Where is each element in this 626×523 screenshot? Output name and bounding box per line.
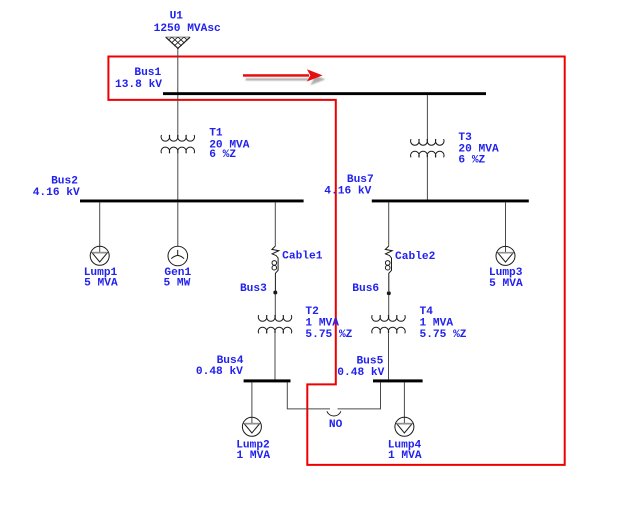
lump load Lump4 xyxy=(395,417,414,436)
node Bus3 junction dot xyxy=(273,291,277,295)
Bus1 bar xyxy=(163,92,486,95)
tie wire NO to Bus5 xyxy=(338,382,381,409)
red arrow xyxy=(243,69,323,81)
svg-text:Bus5: Bus5 xyxy=(356,355,383,367)
svg-text:U1: U1 xyxy=(170,11,184,23)
svg-text:Bus3: Bus3 xyxy=(240,283,267,295)
wire Bus5 to Lump4 xyxy=(403,382,405,423)
transformer T2 xyxy=(258,315,291,333)
lump load Lump1 xyxy=(90,246,109,265)
svg-text:Cable1: Cable1 xyxy=(282,251,323,263)
cable Cable2 xyxy=(385,246,392,291)
tie wire Bus4 to NO switch xyxy=(287,382,330,409)
svg-text:1 MVA: 1 MVA xyxy=(420,318,454,330)
svg-text:1 MVA: 1 MVA xyxy=(305,318,339,330)
svg-text:6 %Z: 6 %Z xyxy=(209,149,236,161)
svg-text:T3: T3 xyxy=(458,132,472,144)
lump load Lump3 xyxy=(496,246,515,265)
wire T1 to Bus2 xyxy=(177,152,179,200)
generator Gen1 xyxy=(168,246,188,266)
wire Bus7 to Cable2 xyxy=(388,202,390,246)
wire Bus2 to Gen1 xyxy=(177,202,179,246)
svg-text:T4: T4 xyxy=(420,306,434,318)
wire T4 to Bus5 xyxy=(388,334,390,380)
wire Bus1 to T3 xyxy=(426,95,428,142)
svg-text:0.48 kV: 0.48 kV xyxy=(196,366,243,378)
Bus2 bar xyxy=(80,200,304,203)
svg-text:4.16 kV: 4.16 kV xyxy=(324,186,371,198)
svg-text:Bus1: Bus1 xyxy=(134,67,161,79)
cable Cable1 xyxy=(272,246,279,291)
svg-text:4.16 kV: 4.16 kV xyxy=(33,187,80,199)
svg-text:1 MVA: 1 MVA xyxy=(237,450,271,462)
svg-text:NO: NO xyxy=(329,419,343,431)
wire Bus7 to Lump3 xyxy=(505,202,507,252)
utility U1 symbol xyxy=(165,36,190,38)
NO switch arc xyxy=(327,411,341,416)
wire utility to T1 through Bus1 xyxy=(177,49,179,139)
wire T2 to Bus4 xyxy=(274,334,276,380)
svg-text:Bus6: Bus6 xyxy=(352,283,379,295)
svg-text:5.75 %Z: 5.75 %Z xyxy=(420,329,467,341)
svg-text:T2: T2 xyxy=(305,306,319,318)
wire Bus4 to Lump2 xyxy=(251,382,253,423)
lump load Lump2 xyxy=(242,417,261,436)
svg-text:5.75 %Z: 5.75 %Z xyxy=(305,329,352,341)
wire T3 to Bus7 xyxy=(426,158,428,200)
red highlight loop xyxy=(108,57,564,465)
svg-text:5 MVA: 5 MVA xyxy=(489,278,523,290)
transformer T3 xyxy=(411,139,444,157)
wire Bus2 to Lump1 xyxy=(99,202,101,252)
svg-text:1250 MVAsc: 1250 MVAsc xyxy=(154,23,221,35)
svg-text:Bus2: Bus2 xyxy=(51,175,78,187)
svg-text:13.8 kV: 13.8 kV xyxy=(115,79,162,91)
svg-text:5 MVA: 5 MVA xyxy=(84,277,118,289)
wire Bus3 to T2 xyxy=(274,295,276,319)
wire Bus2 to Cable1 xyxy=(274,202,276,246)
svg-text:0.48 kV: 0.48 kV xyxy=(337,367,384,379)
transformer T4 xyxy=(372,315,405,333)
node Bus6 junction dot xyxy=(387,291,391,295)
Bus5 bar xyxy=(373,379,423,382)
svg-text:6 %Z: 6 %Z xyxy=(458,154,485,166)
svg-text:Cable2: Cable2 xyxy=(395,251,436,263)
svg-text:T1: T1 xyxy=(209,128,223,140)
svg-text:Bus7: Bus7 xyxy=(347,174,374,186)
svg-text:5 MW: 5 MW xyxy=(163,277,190,289)
Bus7 bar xyxy=(372,200,529,203)
transformer T1 xyxy=(161,135,194,153)
Bus4 bar xyxy=(244,379,291,382)
wire Bus6 to T4 xyxy=(388,295,390,318)
svg-text:1 MVA: 1 MVA xyxy=(388,450,422,462)
arrow shadow xyxy=(246,74,326,86)
